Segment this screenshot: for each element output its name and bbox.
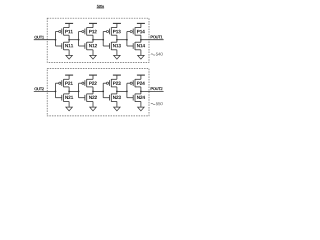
power VDD rail (above P23) [113,75,121,79]
wire (stage 3 output to stage 4 input) [117,39,127,41]
node junction (input to P13/N13 gates) [102,39,104,41]
node junction (input to P24/N24 gates) [126,91,128,93]
power VDD rail (above P13) [113,23,121,27]
node N12 label [89,44,97,47]
transistor P22 (PMOS) [79,79,93,87]
transistor N23 (NMOS) [103,94,117,102]
ground (below N14) [138,50,145,59]
transistor P11 (PMOS) [56,27,70,35]
transistor P24 (PMOS) [127,79,141,87]
node P14 label [137,30,145,33]
node N24 label [137,96,145,99]
node P21 label [65,82,73,85]
wire (stage 1 output to stage 2 input) [69,90,79,92]
node P24 label [137,82,145,85]
wire (drains of P23/N23 to output node) [116,87,118,94]
power VDD rail (above P11) [65,23,73,27]
power VDD rail (above P12) [89,23,97,27]
ground (below N21) [66,102,73,111]
wire (stage 1 output to stage 2 input) [69,39,79,41]
node N14 label [137,44,145,47]
wire (gate net of P13/N13) [102,32,104,47]
wire (drains of P21/N21 to output node) [68,87,70,94]
node N21 label [65,96,73,99]
transistor N22 (NMOS) [79,94,93,102]
wire (stage 2 output to stage 3 input) [93,39,103,41]
wire (input OUT1) [34,39,56,41]
node junction (output of P14/N14) [140,39,142,41]
wire (gate net of P22/N22) [78,83,80,98]
power VDD rail (above P22) [89,75,97,79]
node P12 label [89,30,97,33]
node junction (input to P11/N11 gates) [55,39,57,41]
node junction (output of P21/N21) [68,91,70,93]
transistor N11 (NMOS) [56,42,70,50]
node N23 label [113,96,121,100]
ground (below N23) [114,102,121,111]
power VDD rail (above P24) [137,75,145,79]
node junction (output of P24/N24) [140,91,142,93]
power VDD rail (above P21) [65,75,73,79]
wire (gate net of P12/N12) [78,32,80,47]
wire (drains of P12/N12 to output node) [92,35,94,42]
node N11 label [65,44,73,47]
node 550 reference label [151,102,163,105]
node junction (output of P11/N11) [68,39,70,41]
wire (drains of P14/N14 to output node) [140,35,142,42]
node POUT2 (output terminal) [151,87,163,90]
wire (gate net of P24/N24) [126,83,128,98]
ground (below N11) [66,50,73,59]
wire (stage 2 output to stage 3 input) [93,90,103,92]
transistor N12 (NMOS) [79,42,93,50]
node OUT1 (input terminal) [34,36,44,39]
wire (drains of P13/N13 to output node) [116,35,118,42]
node junction (output of P12/N12) [92,39,94,41]
node N22 label [89,96,97,99]
node N13 label [113,44,121,48]
node OUT2 (input terminal) [34,87,44,90]
node POUT1 (output terminal) [151,36,163,39]
node P13 label [113,30,121,33]
node junction (input to P14/N14 gates) [126,39,128,41]
transistor N14 (NMOS) [127,42,141,50]
transistor N21 (NMOS) [56,94,70,102]
node 540 reference label [151,53,163,56]
node junction (output of P13/N13) [116,39,118,41]
wire (drains of P11/N11 to output node) [68,35,70,42]
transistor N24 (NMOS) [127,94,141,102]
node junction (output of P23/N23) [116,91,118,93]
wire (output POUT2) [141,90,164,92]
ground (below N13) [114,50,121,59]
transistor N13 (NMOS) [103,42,117,50]
power VDD rail (above P14) [137,23,145,27]
wire (gate net of P14/N14) [126,32,128,47]
transistor P21 (PMOS) [56,79,70,87]
wire (drains of P22/N22 to output node) [92,87,94,94]
wire (output POUT1) [141,39,164,41]
wire (gate net of P21/N21) [55,83,57,98]
transistor P12 (PMOS) [79,27,93,35]
ground (below N24) [138,102,145,111]
wire (input OUT2) [34,90,56,92]
node junction (input to P23/N23 gates) [102,91,104,93]
node P22 label [89,82,97,85]
node junction (input to P12/N12 gates) [78,39,80,41]
wire (gate net of P23/N23) [102,83,104,98]
wire (drains of P24/N24 to output node) [140,87,142,94]
transistor P23 (PMOS) [103,79,117,87]
node junction (input to P21/N21 gates) [55,91,57,93]
node 520a (underlined figure reference at top) [97,5,105,8]
transistor P13 (PMOS) [103,27,117,35]
wire (gate net of P11/N11) [55,32,57,47]
node junction (output of P22/N22) [92,91,94,93]
node P11 label [65,30,73,33]
ground (below N22) [90,102,97,111]
block 540 (dashed box) [47,18,149,62]
transistor P14 (PMOS) [127,27,141,35]
ground (below N12) [90,50,97,59]
block 550 (dashed box) [47,69,149,116]
wire (stage 3 output to stage 4 input) [117,90,127,92]
node junction (input to P22/N22 gates) [78,91,80,93]
node P23 label [113,82,121,86]
